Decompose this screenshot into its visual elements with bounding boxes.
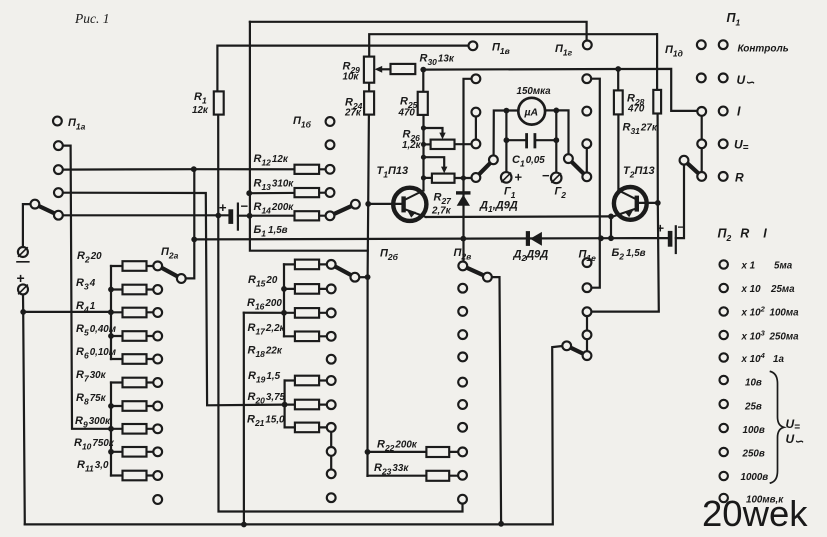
node П1е c1	[583, 258, 592, 267]
node П2 x1000	[720, 331, 728, 339]
svg-text:100в: 100в	[743, 425, 765, 436]
node П2 x1	[720, 260, 728, 268]
wire mid busA R15-R18	[283, 264, 285, 336]
wire R15 row	[284, 263, 327, 265]
node П2а c7	[153, 402, 162, 411]
wire R2 row	[111, 265, 153, 267]
node П1 U~ L	[697, 74, 706, 83]
svg-text:R10750к: R10750к	[74, 437, 115, 452]
node П1б c2	[326, 140, 335, 149]
node П2в c7	[458, 400, 467, 409]
wire R8 row	[111, 405, 153, 407]
switch arm П2а	[158, 266, 181, 279]
node П2а c8	[153, 424, 162, 433]
svg-text:25ма: 25ма	[770, 284, 795, 295]
diode Д1	[456, 191, 471, 206]
node П1а label contact	[53, 117, 62, 126]
node П2б c3	[327, 309, 336, 318]
wire bridge-left contact link	[475, 112, 477, 144]
resistor R14	[295, 211, 320, 220]
node bridge-right c3	[582, 139, 591, 148]
resistor R21	[295, 423, 319, 433]
switch arm П1б	[330, 204, 355, 216]
svg-text:100ма: 100ма	[770, 308, 800, 319]
wire П1а contact3 to R20 row	[63, 193, 327, 406]
node П2 250в	[720, 448, 728, 456]
svg-text:−: −	[241, 199, 249, 214]
node П2 x100	[720, 307, 728, 315]
svg-text:R: R	[735, 171, 744, 185]
svg-text:U∽: U∽	[737, 73, 756, 89]
wire Ø+ row to bus1	[23, 311, 111, 313]
node П2в c1	[458, 262, 467, 271]
svg-text:П1г: П1г	[555, 43, 573, 58]
resistor R16	[295, 284, 319, 294]
node П2 x10	[720, 284, 728, 292]
wire П1а contact1 to R9 row	[63, 146, 111, 429]
node bridge-left c1	[472, 74, 481, 83]
svg-text:П1а: П1а	[68, 117, 86, 132]
node П2в c8	[458, 423, 467, 432]
terminal slash Ø minus	[17, 248, 29, 262]
switch arm П2б	[331, 264, 355, 277]
wire C1 row	[506, 139, 556, 141]
resistor R10	[123, 447, 147, 457]
node П2в c10	[458, 471, 467, 480]
svg-text:10в: 10в	[745, 378, 762, 389]
svg-text:С10,05: С10,05	[512, 154, 545, 169]
resistor R12	[295, 165, 320, 174]
battery Б2	[657, 220, 685, 253]
svg-text:Контроль: Контроль	[738, 44, 789, 55]
svg-text:П1в: П1в	[492, 42, 510, 57]
terminal slash Г2	[552, 174, 561, 183]
svg-text:R1822к: R1822к	[248, 345, 283, 360]
svg-text:х 102: х 102	[741, 305, 766, 319]
wire П1е pivot to bottom bus	[25, 346, 563, 524]
node П2б c11	[327, 493, 336, 502]
node П2б c4	[327, 332, 336, 341]
svg-text:10к: 10к	[343, 72, 360, 83]
resistor R28	[614, 90, 623, 114]
resistor R6	[123, 354, 147, 364]
svg-text:R203,75: R203,75	[248, 391, 286, 406]
svg-text:х 103: х 103	[741, 329, 766, 343]
node bridge-left c3	[472, 140, 481, 149]
resistor R26	[431, 140, 455, 149]
node П1а c3	[54, 188, 63, 197]
node bridge-left c2	[472, 108, 481, 117]
resistor R30	[391, 64, 416, 74]
resistor R13	[295, 188, 320, 197]
svg-text:1,2к: 1,2к	[402, 140, 422, 151]
wire T2 base	[639, 202, 658, 204]
node П1 I R	[719, 107, 728, 116]
svg-text:2,7к: 2,7к	[431, 206, 452, 217]
svg-text:Д1,Д9Д: Д1,Д9Д	[479, 200, 518, 215]
switch arms thick	[35, 159, 702, 356]
terminal Г1	[501, 172, 512, 183]
svg-text:−: −	[542, 168, 550, 183]
node П2 100мв	[720, 494, 728, 502]
svg-text:R875к: R875к	[76, 392, 107, 407]
node П1е c2	[583, 283, 592, 292]
svg-text:R3127к: R3127к	[623, 122, 658, 137]
node П1 контроль R	[719, 40, 728, 49]
wire bus1 R2-R6	[110, 266, 112, 359]
svg-text:R1212к: R1212к	[254, 153, 289, 168]
resistor R31	[653, 90, 661, 114]
node П1 U= R	[719, 139, 728, 148]
svg-text:1а: 1а	[773, 354, 784, 365]
wire bus2 R7-R11	[110, 383, 112, 476]
svg-text:х 10: х 10	[741, 284, 762, 295]
wire meter right to bridge pivot	[545, 110, 569, 154]
wire R29 wiper from R30	[379, 68, 391, 70]
wire Б1 bottom bus with Д2 to Б2 plus	[194, 238, 668, 239]
wire R4 row	[111, 311, 154, 313]
svg-text:250ма: 250ма	[769, 332, 800, 343]
svg-text:П1д: П1д	[665, 44, 683, 59]
node П1г contact	[583, 41, 592, 50]
node П1д pivot	[680, 156, 689, 165]
wire R27 left stub	[424, 177, 432, 179]
svg-text:П2RI: П2RI	[718, 227, 768, 244]
wire R13 row	[249, 192, 325, 195]
node П1б c1	[326, 117, 335, 126]
wire R11 row	[111, 474, 153, 476]
svg-text:П2в: П2в	[454, 247, 472, 262]
node П2в c2	[458, 284, 467, 293]
node П2в c9	[458, 448, 467, 457]
node П2б c10	[327, 469, 336, 478]
node П1а c4	[54, 211, 63, 220]
node П1 контроль L	[697, 40, 706, 49]
node П2в c3	[458, 307, 467, 316]
wire bridge-right contact link	[586, 144, 588, 177]
wire П2а pivot riser	[186, 169, 195, 278]
wire П1а contact2 R12 row	[63, 168, 326, 171]
node П1б pivot	[351, 200, 360, 209]
switch arm П2в	[463, 266, 488, 277]
svg-text:R113,0: R113,0	[77, 459, 109, 474]
wire Ø- riser to П1а pivot	[23, 204, 31, 247]
node П1в contact	[469, 41, 478, 50]
svg-text:−: −	[678, 220, 685, 234]
resistor R23	[426, 471, 449, 481]
wire П2б contact link 427-474	[330, 427, 332, 473]
svg-text:+: +	[17, 270, 25, 286]
node П2б c8	[327, 423, 336, 432]
node П2а c3	[153, 308, 162, 317]
wire Ø+ terminal riser and left bottom bus	[23, 295, 25, 525]
node П1а c1	[54, 141, 63, 150]
wire R28 bottom to T2 collector	[617, 114, 619, 190]
svg-text:R27: R27	[434, 192, 453, 207]
wire R28 top	[617, 69, 619, 90]
wire Д1 branch contact78 down to П2в top	[464, 79, 472, 262]
wire R22 row	[368, 451, 459, 453]
node П2в c5	[458, 353, 467, 362]
wire R26 right to contact	[455, 143, 472, 145]
node П2б c1	[327, 260, 336, 269]
terminal Г2	[551, 173, 562, 184]
wire R29-R24 link	[368, 83, 370, 92]
wire Г2 drop	[555, 110, 557, 172]
node П2б c5	[327, 355, 336, 364]
wire left riser node Б1-minus / R13 / П2б feed	[250, 22, 368, 251]
wire R26 wiper tap	[424, 128, 443, 134]
svg-text:Г2: Г2	[555, 186, 567, 201]
node П2б c6	[327, 376, 336, 385]
wire R19 row	[285, 379, 327, 381]
svg-text:Т1П13: Т1П13	[377, 165, 409, 180]
node П1д I	[697, 107, 706, 116]
node П2а c9	[153, 447, 162, 456]
wire R1 bottom through battery row down to bottom-right link	[218, 115, 462, 512]
arrow R27 wiper	[441, 167, 447, 174]
node П2в c11	[458, 495, 467, 504]
node П2в c4	[458, 330, 467, 339]
wire T2 emitter drop	[610, 216, 612, 238]
node bridge-left pivot	[489, 155, 498, 164]
node П2б c2	[327, 285, 336, 294]
node П2б c7	[327, 400, 336, 409]
svg-text:Б21,5в: Б21,5в	[612, 247, 646, 262]
terminal slash Ø plus	[19, 285, 28, 294]
wire П1а contact4 battery row left	[63, 214, 229, 216]
resistor R2	[123, 261, 147, 271]
svg-text:U=: U=	[734, 138, 749, 154]
node П1б c3	[326, 165, 335, 174]
resistor R27	[432, 174, 455, 183]
svg-text:1000в: 1000в	[741, 472, 769, 483]
svg-text:R3013к: R3013к	[420, 53, 455, 68]
resistor R15	[295, 260, 319, 270]
node П2 x10000	[720, 353, 728, 361]
resistor R9	[123, 424, 147, 434]
node П2а c2	[153, 285, 162, 294]
wire R9 row	[111, 428, 153, 430]
svg-text:470: 470	[398, 108, 416, 119]
svg-text:R191,5: R191,5	[248, 370, 281, 385]
resistor R24	[364, 91, 374, 114]
svg-text:R9300к: R9300к	[75, 415, 111, 430]
wire R27 right to contact	[455, 177, 472, 179]
wire battery row right R14	[238, 215, 326, 217]
wire П1е contact311 to T2 base R31 chain	[591, 114, 658, 312]
wire R7 row	[111, 381, 153, 383]
node П1б c5	[326, 211, 335, 220]
svg-text:Д2Д9Д: Д2Д9Д	[513, 249, 549, 264]
node П2 25в	[720, 400, 728, 408]
node П2а c11	[153, 495, 162, 504]
svg-text:П2а: П2а	[161, 246, 179, 261]
svg-text:Т2П13: Т2П13	[623, 165, 655, 180]
svg-text:R1: R1	[194, 91, 207, 106]
svg-text:R2115,0: R2115,0	[247, 414, 285, 429]
svg-text:I: I	[737, 105, 741, 119]
terminal Ø plus	[18, 284, 28, 294]
resistor R11	[123, 471, 147, 481]
switch arm bridge right	[568, 159, 586, 177]
svg-text:20wek: 20wek	[702, 493, 808, 534]
switch arm bridge left	[476, 160, 494, 178]
node bridge-right pivot	[564, 154, 573, 163]
svg-text:470: 470	[627, 104, 645, 115]
node П1е c4	[583, 330, 592, 339]
switch arm П1е	[567, 346, 587, 356]
node bridge-left c4	[472, 173, 481, 182]
transistor Т2 П13	[614, 187, 647, 220]
resistor R4	[123, 308, 147, 318]
wire top line1 to П1г	[250, 22, 587, 41]
resistor R17	[295, 308, 319, 318]
node П2 1000в	[720, 472, 728, 480]
resistor R29	[364, 57, 374, 83]
node П1д R	[697, 172, 706, 181]
wire R17 feed to bottom bus	[243, 313, 245, 525]
svg-text:25в: 25в	[744, 402, 762, 413]
svg-text:П1: П1	[727, 11, 741, 28]
diode Д2	[526, 231, 542, 246]
resistor R3	[123, 285, 147, 295]
node П2 100в	[720, 424, 728, 432]
wire R31 top to line2	[656, 34, 658, 90]
wire R16 row	[284, 288, 327, 290]
switch arm П1а	[35, 204, 59, 215]
node П2в c6	[458, 378, 467, 387]
resistor R1	[214, 91, 224, 114]
wire П1д contact link I-R	[701, 116, 703, 172]
svg-text:Рис. 1: Рис. 1	[74, 11, 110, 26]
svg-text:µА: µА	[524, 107, 539, 119]
resistor R22	[426, 447, 449, 457]
svg-text:12к: 12к	[192, 105, 209, 116]
node П2в pivot	[483, 273, 492, 282]
svg-text:R16200: R16200	[247, 297, 282, 312]
node П1е c3	[583, 307, 592, 316]
transistor Т1 П13	[393, 188, 426, 221]
wire top line2 П1д feed	[369, 34, 657, 56]
terminal Ø minus	[18, 247, 28, 257]
node П1а pivot	[31, 200, 40, 209]
node П2а c10	[153, 471, 162, 480]
node П2а c1	[153, 262, 162, 271]
node П1е c5	[583, 351, 592, 360]
wire meter left to bridge pivot	[494, 111, 519, 156]
svg-text:R220: R220	[77, 250, 102, 265]
wire R10 row	[111, 451, 153, 453]
wire П1е contact column link	[586, 312, 588, 356]
wire R24 bottom to T1 base and П2б bus	[368, 115, 369, 476]
node П1 U~ R	[719, 74, 728, 83]
svg-text:R172,2к: R172,2к	[248, 322, 286, 337]
resistor R18	[295, 332, 319, 342]
capacitor C1	[527, 135, 535, 148]
wire R17 row	[244, 312, 327, 314]
svg-text:R730к: R730к	[76, 369, 107, 384]
resistor R20	[295, 400, 319, 410]
battery Б1	[219, 199, 249, 230]
resistor R5	[123, 331, 147, 341]
node П2б c9	[327, 447, 336, 456]
wire R18 row	[284, 335, 327, 337]
wire R5 row	[111, 335, 153, 337]
svg-text:х 1: х 1	[741, 261, 756, 272]
node П1д U=	[697, 139, 706, 148]
svg-text:Г1: Г1	[504, 186, 516, 201]
svg-text:П1е: П1е	[579, 249, 597, 264]
wire top line3 R1 to П1в	[217, 46, 468, 92]
svg-text:П1б: П1б	[293, 115, 312, 130]
node П2а pivot	[177, 274, 186, 283]
arrow R26 wiper	[439, 133, 445, 140]
node bridge-right c1	[582, 74, 591, 83]
svg-text:П2б: П2б	[380, 248, 399, 263]
svg-text:х 104: х 104	[741, 351, 766, 365]
node П1б c4	[326, 188, 335, 197]
svg-text:R13310к: R13310к	[254, 178, 295, 193]
svg-text:+: +	[219, 200, 227, 215]
svg-text:5ма: 5ма	[774, 261, 793, 272]
node П2а c4	[153, 332, 162, 341]
svg-text:27к: 27к	[344, 108, 362, 119]
wire Б2 minus riser to П1д pivot	[676, 164, 684, 238]
wire П2в pivot feed to bottom bus	[492, 277, 501, 524]
wire T1 base	[368, 203, 401, 205]
svg-text:U=: U=	[786, 417, 801, 433]
wire R21 row	[285, 426, 327, 428]
node П2а c6	[153, 378, 162, 387]
svg-text:+: +	[515, 170, 523, 185]
node П2а c5	[153, 355, 162, 364]
resistor R19	[295, 376, 319, 386]
node bridge-right c2	[582, 107, 591, 116]
switch arm П1д	[684, 160, 702, 176]
terminal slash Г1	[502, 173, 511, 182]
node П2 10в	[720, 376, 728, 384]
resistor R7	[123, 378, 147, 388]
wire R6 row	[111, 358, 153, 360]
wire П2б pivot stub	[359, 276, 367, 278]
node П2б pivot	[351, 273, 360, 282]
wire R30 junction down to R25	[422, 70, 424, 92]
node П1 R R	[719, 172, 728, 181]
svg-text:U∽: U∽	[786, 432, 805, 448]
brace U= U~	[771, 372, 784, 484]
svg-text:R14200к: R14200к	[254, 201, 295, 216]
arrow R29 wiper	[375, 66, 383, 73]
svg-text:R34: R34	[76, 277, 96, 292]
wire Г1 drop	[505, 111, 507, 173]
meter µА	[518, 98, 545, 125]
node bridge-right c4	[582, 172, 591, 181]
svg-text:150мка: 150мка	[517, 86, 552, 97]
resistor R25	[418, 92, 428, 115]
svg-text:R1520: R1520	[248, 274, 278, 289]
node П1а c2	[54, 165, 63, 174]
wire П1е top contact bus	[591, 79, 600, 288]
wire R26 left stub	[424, 143, 431, 145]
wire R25 bottom to T1 collector chain	[422, 115, 424, 190]
wire R27 wiper tap	[424, 157, 445, 167]
svg-text:Б11,5в: Б11,5в	[254, 224, 288, 239]
wire emitter row T1-T2	[426, 215, 611, 218]
svg-text:+: +	[657, 221, 665, 236]
resistor R8	[123, 401, 147, 411]
svg-text:R2333к: R2333к	[374, 462, 409, 477]
